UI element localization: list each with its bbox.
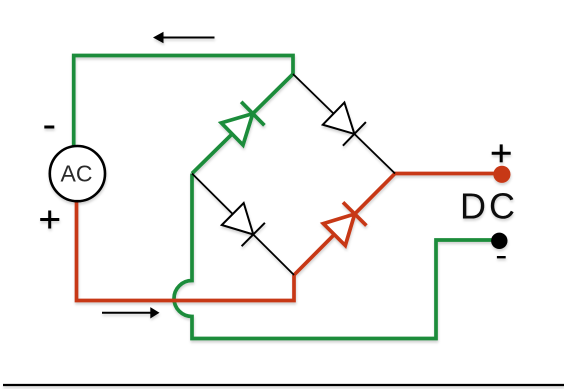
diode D2 (black, top-to-right)	[323, 103, 366, 146]
arrow: current direction bottom (rightwards)	[102, 307, 160, 318]
label: plus at AC bottom	[40, 211, 59, 229]
terminal: DC positive red dot	[493, 166, 510, 183]
wire: green bridge arm top-left (left vertex to top vertex)	[192, 74, 293, 174]
wire: black bridge arm top-right	[293, 74, 395, 174]
wire: green AC-top to bridge top vertex	[74, 56, 293, 148]
diode D1 (green, left-to-top)	[221, 102, 264, 145]
wire: red AC-bottom to bridge bottom vertex	[77, 201, 295, 301]
arrow: current direction top (leftwards)	[153, 32, 215, 44]
label: plus at DC positive	[492, 144, 511, 162]
label: minus at DC negative	[497, 256, 506, 258]
diode D3 (black, left-to-bottom)	[222, 203, 265, 246]
wire: red bridge arm bottom-right and DC-positive lead	[294, 174, 502, 276]
terminal: DC negative black dot	[491, 233, 507, 249]
wire: green DC-negative path with hop over red wire	[174, 174, 499, 339]
svg-text:DC: DC	[460, 186, 518, 227]
svg-text:AC: AC	[61, 161, 93, 187]
diode D4 (red, bottom-to-right)	[323, 202, 366, 245]
wire: black bridge arm bottom-left	[192, 174, 294, 276]
slide footer rule	[3, 384, 564, 386]
AC source circle	[50, 146, 105, 201]
label: minus at AC top	[44, 126, 54, 129]
